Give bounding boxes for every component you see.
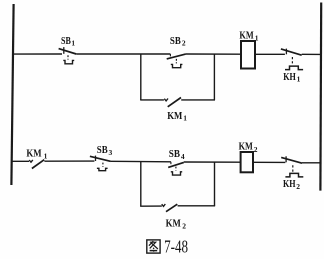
branch1 right vertical wire (213, 54, 215, 100)
wire KH2 to right rail (302, 162, 321, 164)
branch2 bottom wire left (140, 205, 162, 207)
wire KM1 contact to SB3 (44, 160, 94, 162)
svg-text:KM: KM (167, 110, 183, 122)
svg-text:KH: KH (283, 71, 296, 83)
label KH1 (283, 71, 300, 84)
label KM2 (contact) (166, 217, 187, 230)
coil KM2 (241, 152, 253, 172)
svg-text:2: 2 (182, 221, 186, 230)
pushbutton SB4 (NO) (168, 162, 184, 175)
pushbutton SB2 (NO) (167, 54, 186, 68)
svg-text:1: 1 (44, 152, 48, 161)
svg-text:SB: SB (169, 148, 181, 160)
label SB3 (97, 144, 113, 157)
wire rung2 rail to KM1 contact (12, 160, 30, 162)
label KH2 (283, 178, 300, 191)
wire KH1 to right rail (302, 53, 321, 55)
left power rail (11, 4, 13, 185)
svg-text:7-48: 7-48 (164, 236, 188, 256)
label SB2 (170, 35, 186, 48)
label SB4 (169, 148, 185, 161)
thermal contact KH1 (NC) (281, 49, 303, 70)
svg-text:2: 2 (296, 182, 300, 191)
thermal contact KH2 (NC) (281, 156, 303, 177)
right power rail (319, 3, 322, 191)
svg-text:1: 1 (183, 114, 187, 123)
svg-text:1: 1 (71, 39, 75, 48)
caption glyph 图 (147, 240, 160, 253)
caption text 7-48 (164, 236, 188, 256)
contact KM1 (NO self-holding) (164, 98, 181, 107)
branch2 bottom wire right (178, 205, 216, 207)
svg-text:SB: SB (170, 35, 181, 47)
svg-text:2: 2 (182, 39, 186, 48)
label SB1 (61, 35, 75, 48)
svg-text:KM: KM (26, 148, 42, 160)
wire rung1 rail to SB1 (12, 53, 62, 55)
branch2 right vertical wire (214, 162, 216, 206)
label KM1 (coil) (239, 30, 258, 43)
pushbutton SB3 (NC) (90, 156, 111, 171)
wire SB3 to SB4 (111, 160, 171, 163)
svg-text:1: 1 (297, 75, 301, 84)
branch1 bottom wire left (140, 99, 164, 101)
svg-text:4: 4 (181, 152, 185, 161)
branch2 left vertical wire (140, 162, 142, 207)
svg-text:KM: KM (239, 141, 254, 153)
label KM1 (rung2 contact) (26, 148, 47, 161)
coil KM1 (241, 41, 255, 69)
svg-text:3: 3 (109, 148, 113, 157)
wire SB2 to KM1 coil (186, 53, 241, 55)
wire KM2 coil to KH2 (253, 161, 285, 163)
svg-text:KM: KM (166, 217, 182, 229)
svg-text:SB: SB (97, 144, 108, 156)
pushbutton SB1 (NC) (59, 47, 77, 64)
svg-text:1: 1 (255, 34, 259, 43)
svg-text:KH: KH (283, 178, 296, 190)
wire KM1 coil to KH1 (255, 53, 285, 55)
branch1 bottom wire right (181, 99, 215, 101)
branch1 left vertical wire (140, 54, 142, 100)
wire SB4 to KM2 coil (184, 161, 241, 163)
svg-text:SB: SB (61, 35, 71, 47)
svg-text:2: 2 (254, 145, 258, 154)
label KM2 (coil) (239, 141, 258, 154)
wire SB1 to SB2 (76, 53, 170, 55)
contact KM1 (NO, rung2) (29, 160, 44, 169)
contact KM2 (NO self-holding) (162, 204, 178, 212)
label KM1 (contact) (167, 110, 187, 123)
svg-text:KM: KM (239, 30, 254, 42)
